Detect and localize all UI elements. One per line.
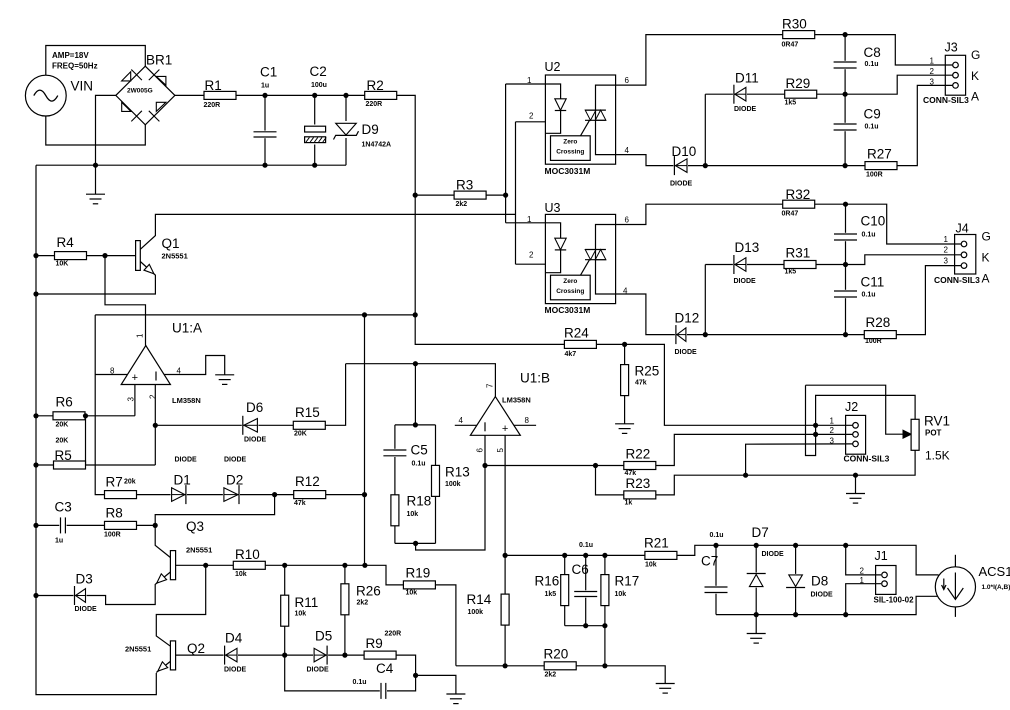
svg-text:R12: R12 [295, 474, 320, 489]
svg-text:10K: 10K [56, 261, 69, 268]
svg-text:Crossing: Crossing [556, 149, 584, 156]
svg-text:0.1u: 0.1u [862, 292, 876, 299]
svg-text:1N4742A: 1N4742A [362, 142, 392, 149]
svg-text:R2: R2 [367, 78, 384, 93]
svg-text:D2: D2 [226, 473, 243, 488]
svg-text:DIODE: DIODE [307, 667, 330, 674]
svg-text:6: 6 [625, 216, 630, 225]
svg-text:1: 1 [830, 417, 835, 426]
svg-text:D5: D5 [315, 629, 332, 644]
svg-text:2N5551: 2N5551 [162, 252, 188, 261]
svg-text:2: 2 [944, 246, 949, 255]
svg-text:3: 3 [930, 78, 935, 87]
svg-text:RV1: RV1 [924, 414, 950, 429]
svg-text:G: G [982, 230, 991, 244]
svg-text:1k: 1k [625, 500, 633, 507]
svg-text:U1:B: U1:B [520, 371, 550, 386]
svg-text:1.0*I(A,B): 1.0*I(A,B) [982, 584, 1010, 591]
svg-text:1: 1 [527, 215, 532, 224]
svg-text:A: A [971, 89, 979, 103]
svg-text:20K: 20K [56, 438, 69, 445]
svg-text:J3: J3 [945, 41, 958, 55]
svg-text:2: 2 [930, 67, 935, 76]
svg-text:R30: R30 [782, 17, 807, 32]
svg-text:DIODE: DIODE [244, 437, 267, 444]
svg-text:A: A [982, 272, 990, 286]
svg-text:6: 6 [476, 448, 485, 453]
svg-text:D10: D10 [672, 144, 697, 159]
svg-text:DIODE: DIODE [811, 592, 834, 599]
svg-text:POT: POT [925, 429, 942, 438]
svg-text:MOC3031M: MOC3031M [545, 305, 591, 315]
svg-text:20K: 20K [294, 431, 307, 438]
svg-text:2N5551: 2N5551 [125, 645, 151, 654]
svg-text:100k: 100k [445, 481, 461, 488]
svg-text:R4: R4 [57, 235, 75, 250]
svg-text:R9: R9 [366, 636, 383, 651]
svg-text:10k: 10k [235, 571, 247, 578]
svg-text:C2: C2 [310, 64, 327, 79]
svg-text:220R: 220R [366, 101, 383, 108]
svg-text:Zero: Zero [563, 139, 577, 146]
svg-text:2N5551: 2N5551 [186, 546, 212, 555]
svg-text:DIODE: DIODE [224, 667, 247, 674]
svg-text:R19: R19 [406, 566, 431, 581]
svg-text:R17: R17 [615, 574, 640, 589]
svg-text:J4: J4 [956, 222, 969, 236]
svg-text:R25: R25 [635, 364, 660, 379]
svg-text:D13: D13 [735, 240, 760, 255]
svg-text:R21: R21 [644, 536, 669, 551]
svg-text:3: 3 [944, 257, 949, 266]
svg-text:Q2: Q2 [187, 641, 205, 656]
svg-text:C1: C1 [260, 65, 277, 80]
svg-text:SIL-100-02: SIL-100-02 [874, 596, 915, 605]
svg-text:VIN: VIN [71, 79, 94, 94]
svg-text:R1: R1 [205, 78, 222, 93]
svg-text:0.1u: 0.1u [353, 679, 367, 686]
svg-text:8: 8 [525, 416, 530, 425]
svg-text:2: 2 [860, 567, 865, 576]
svg-text:R15: R15 [295, 405, 320, 420]
svg-text:1: 1 [944, 235, 949, 244]
svg-text:R26: R26 [356, 584, 381, 599]
svg-text:R3: R3 [456, 178, 473, 193]
svg-text:R27: R27 [867, 147, 892, 162]
svg-text:1u: 1u [261, 83, 269, 90]
svg-text:FREQ=50Hz: FREQ=50Hz [52, 62, 98, 71]
svg-text:R5: R5 [55, 448, 72, 463]
svg-text:K: K [982, 251, 990, 265]
svg-text:2k2: 2k2 [545, 672, 557, 679]
svg-text:DIODE: DIODE [734, 278, 757, 285]
svg-text:2: 2 [529, 251, 534, 260]
svg-text:2: 2 [529, 112, 534, 121]
svg-text:R13: R13 [445, 465, 470, 480]
svg-text:10k: 10k [406, 590, 418, 597]
svg-text:BR1: BR1 [146, 53, 172, 68]
svg-text:C5: C5 [411, 443, 428, 458]
svg-text:D8: D8 [811, 574, 828, 589]
svg-text:10k: 10k [295, 611, 307, 618]
svg-text:0R47: 0R47 [782, 42, 799, 49]
svg-text:C9: C9 [864, 107, 881, 122]
svg-text:K: K [971, 69, 979, 83]
svg-text:AMP=18V: AMP=18V [52, 51, 89, 60]
svg-text:MOC3031M: MOC3031M [545, 166, 591, 176]
svg-text:DIODE: DIODE [670, 181, 693, 188]
svg-text:D12: D12 [675, 311, 700, 326]
svg-text:R6: R6 [56, 395, 73, 410]
svg-text:G: G [971, 48, 980, 62]
svg-text:R24: R24 [564, 326, 589, 341]
svg-text:R29: R29 [786, 76, 811, 91]
svg-text:U1:A: U1:A [172, 321, 202, 336]
svg-text:DIODE: DIODE [224, 457, 247, 464]
svg-text:DIODE: DIODE [734, 106, 757, 113]
svg-text:2k2: 2k2 [456, 201, 468, 208]
svg-text:1k5: 1k5 [785, 100, 797, 107]
svg-text:LM358N: LM358N [172, 396, 201, 405]
svg-text:D11: D11 [735, 71, 759, 86]
svg-text:C7: C7 [701, 554, 718, 569]
svg-text:R32: R32 [786, 187, 811, 202]
svg-text:R16: R16 [535, 574, 560, 589]
svg-text:1k5: 1k5 [785, 269, 797, 276]
svg-text:R28: R28 [866, 315, 891, 330]
svg-text:DIODE: DIODE [175, 457, 198, 464]
svg-text:R20: R20 [544, 647, 569, 662]
svg-text:R18: R18 [407, 494, 432, 509]
svg-text:DIODE: DIODE [762, 551, 785, 558]
svg-text:3: 3 [830, 437, 835, 446]
svg-text:C8: C8 [864, 45, 881, 60]
svg-text:C3: C3 [55, 500, 72, 515]
svg-text:CONN-SIL3: CONN-SIL3 [923, 95, 969, 105]
svg-text:0R47: 0R47 [782, 211, 799, 218]
svg-text:R14: R14 [467, 592, 492, 607]
svg-text:DIODE: DIODE [675, 349, 698, 356]
svg-text:R22: R22 [626, 447, 651, 462]
svg-text:4: 4 [459, 416, 464, 425]
svg-text:1: 1 [930, 57, 935, 66]
svg-text:20K: 20K [56, 422, 69, 429]
svg-text:R31: R31 [786, 246, 811, 261]
svg-text:5: 5 [496, 448, 505, 453]
svg-text:0.1u: 0.1u [412, 461, 426, 468]
svg-text:1: 1 [860, 576, 865, 585]
svg-text:DIODE: DIODE [75, 606, 98, 613]
svg-text:Q3: Q3 [186, 519, 204, 534]
svg-text:0.1u: 0.1u [865, 61, 879, 68]
svg-text:+: + [502, 423, 508, 435]
svg-text:C6: C6 [572, 562, 589, 577]
svg-text:R23: R23 [626, 476, 651, 491]
svg-text:220R: 220R [204, 102, 221, 109]
svg-text:LM358N: LM358N [502, 396, 531, 405]
svg-text:D1: D1 [174, 473, 191, 488]
svg-text:J2: J2 [845, 400, 858, 414]
svg-text:R7: R7 [106, 475, 123, 490]
svg-text:1.5K: 1.5K [925, 449, 950, 463]
svg-text:100u: 100u [311, 82, 327, 89]
svg-text:0.1u: 0.1u [710, 532, 724, 539]
svg-text:47k: 47k [635, 380, 647, 387]
svg-text:4k7: 4k7 [565, 351, 577, 358]
svg-text:Zero: Zero [563, 278, 577, 285]
svg-text:C10: C10 [861, 214, 886, 229]
svg-text:2: 2 [149, 394, 158, 399]
svg-text:4: 4 [625, 146, 630, 155]
svg-text:220R: 220R [385, 631, 402, 638]
svg-text:1: 1 [136, 333, 145, 338]
svg-text:1u: 1u [55, 538, 63, 545]
svg-text:R8: R8 [106, 506, 123, 521]
svg-text:R11: R11 [295, 595, 319, 610]
svg-text:D9: D9 [362, 122, 379, 137]
svg-text:ACS1: ACS1 [979, 564, 1010, 579]
svg-text:U3: U3 [545, 201, 561, 215]
svg-text:2W005G: 2W005G [127, 88, 153, 95]
svg-text:CONN-SIL3: CONN-SIL3 [844, 454, 890, 464]
svg-text:D6: D6 [246, 400, 263, 415]
svg-text:4: 4 [177, 367, 182, 376]
svg-text:7: 7 [486, 383, 495, 388]
svg-text:2: 2 [830, 426, 835, 435]
svg-text:J1: J1 [875, 549, 888, 563]
svg-text:10k: 10k [407, 511, 419, 518]
svg-text:D7: D7 [752, 525, 769, 540]
svg-text:2k2: 2k2 [357, 600, 369, 607]
svg-text:8: 8 [110, 367, 115, 376]
svg-text:D3: D3 [76, 572, 93, 587]
svg-text:10k: 10k [615, 591, 627, 598]
svg-text:C11: C11 [861, 275, 885, 290]
svg-text:4: 4 [623, 287, 628, 296]
svg-text:6: 6 [625, 76, 630, 85]
svg-text:47k: 47k [294, 500, 306, 507]
svg-text:CONN-SIL3: CONN-SIL3 [934, 275, 980, 285]
svg-text:10k: 10k [645, 562, 657, 569]
svg-text:C4: C4 [376, 661, 394, 676]
svg-text:0.1u: 0.1u [862, 232, 876, 239]
svg-text:100R: 100R [104, 532, 121, 539]
svg-text:20k: 20k [124, 479, 136, 486]
svg-text:100k: 100k [468, 609, 484, 616]
svg-text:U2: U2 [545, 60, 561, 74]
svg-text:+: + [132, 372, 138, 384]
svg-text:R10: R10 [235, 547, 260, 562]
svg-text:1: 1 [527, 76, 532, 85]
svg-text:1k5: 1k5 [545, 591, 557, 598]
svg-text:Crossing: Crossing [556, 288, 584, 295]
svg-text:3: 3 [127, 397, 136, 402]
svg-text:100R: 100R [865, 338, 882, 345]
svg-text:D4: D4 [225, 631, 243, 646]
svg-text:0.1u: 0.1u [579, 542, 593, 549]
svg-text:0.1u: 0.1u [865, 124, 879, 131]
svg-text:Q1: Q1 [162, 236, 180, 251]
svg-text:100R: 100R [866, 172, 883, 179]
